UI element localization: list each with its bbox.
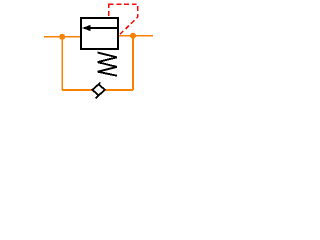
spring xyxy=(98,53,118,76)
valve body U1: pressure relief valve xyxy=(81,18,118,49)
node: left junction xyxy=(59,34,65,40)
wire: right outlet line xyxy=(117,35,153,37)
wire: bottom line right segment xyxy=(105,89,133,91)
wire: right vertical riser xyxy=(132,36,134,90)
wire: left supply line xyxy=(44,36,81,38)
wire: left vertical drop xyxy=(61,37,63,90)
pilot line top/right (red dashed) xyxy=(109,4,138,35)
check valve / filter diamond xyxy=(92,84,104,95)
node: right junction xyxy=(130,33,136,39)
pilot line (red dashed) xyxy=(108,3,110,17)
diamond bottom tick xyxy=(96,96,99,99)
wire: bottom line left segment xyxy=(62,89,92,91)
arrow inside valve xyxy=(89,27,117,29)
diamond top tick xyxy=(97,82,100,85)
